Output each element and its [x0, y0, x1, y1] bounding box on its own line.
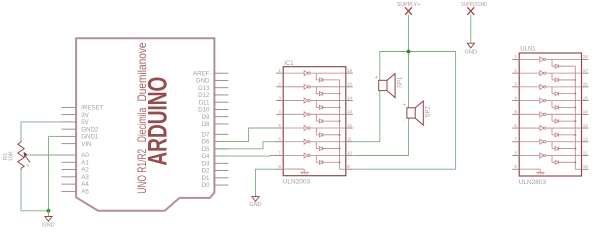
- svg-text:D13: D13: [198, 85, 210, 92]
- svg-text:D1: D1: [202, 175, 210, 182]
- svg-text:A1: A1: [81, 159, 89, 166]
- svg-text:14: 14: [347, 95, 353, 100]
- svg-text:D3: D3: [202, 160, 210, 167]
- svg-text:D6: D6: [202, 139, 210, 146]
- svg-text:D10: D10: [198, 107, 210, 114]
- svg-text:15: 15: [583, 95, 589, 100]
- svg-text:SUPPLY+: SUPPLY+: [397, 2, 421, 8]
- svg-text:18: 18: [583, 54, 589, 59]
- svg-text:14: 14: [583, 109, 589, 114]
- svg-text:GND: GND: [196, 78, 210, 85]
- svg-text:/RESET: /RESET: [81, 105, 104, 112]
- svg-text:D5: D5: [202, 146, 210, 153]
- svg-text:GND: GND: [465, 50, 477, 56]
- svg-text:13: 13: [583, 123, 589, 128]
- svg-text:A4: A4: [81, 181, 89, 188]
- svg-text:11: 11: [347, 137, 352, 142]
- svg-text:SP2: SP2: [426, 105, 432, 117]
- svg-text:15: 15: [347, 82, 353, 87]
- svg-text:10K: 10K: [9, 151, 15, 161]
- svg-text:ARDUINO: ARDUINO: [143, 77, 173, 166]
- svg-text:SUPPLYGND: SUPPLYGND: [461, 2, 487, 8]
- svg-text:D7: D7: [202, 131, 210, 138]
- svg-text:ULN1: ULN1: [520, 47, 536, 53]
- svg-text:5V: 5V: [81, 119, 89, 126]
- svg-text:D8: D8: [202, 121, 210, 128]
- svg-text:+: +: [403, 102, 406, 108]
- svg-text:17: 17: [583, 68, 589, 73]
- svg-text:+: +: [375, 75, 378, 81]
- svg-text:SP1: SP1: [398, 76, 404, 88]
- svg-text:12: 12: [347, 123, 353, 128]
- svg-text:16: 16: [583, 82, 589, 87]
- svg-text:10: 10: [583, 164, 589, 169]
- svg-text:D11: D11: [199, 99, 210, 106]
- svg-text:A5: A5: [81, 189, 89, 196]
- svg-text:D0: D0: [202, 182, 210, 189]
- svg-text:GND1: GND1: [81, 134, 99, 141]
- svg-text:GND2: GND2: [81, 126, 99, 133]
- svg-text:IC1: IC1: [284, 61, 294, 67]
- svg-text:A3: A3: [81, 174, 89, 181]
- svg-text:VIN: VIN: [81, 141, 91, 148]
- svg-text:D9: D9: [202, 114, 210, 121]
- svg-text:D4: D4: [202, 153, 210, 160]
- svg-text:D2: D2: [202, 168, 210, 175]
- svg-text:13: 13: [347, 109, 353, 114]
- svg-text:11: 11: [583, 150, 588, 155]
- svg-text:+: +: [27, 163, 30, 168]
- svg-text:12: 12: [583, 137, 589, 142]
- svg-text:GND: GND: [249, 202, 261, 208]
- svg-text:16: 16: [347, 68, 353, 73]
- svg-text:A2: A2: [81, 167, 89, 174]
- svg-text:ULN2003: ULN2003: [283, 179, 311, 186]
- svg-text:10: 10: [347, 150, 353, 155]
- svg-text:ULN2803: ULN2803: [519, 179, 547, 186]
- svg-text:3V: 3V: [81, 112, 89, 119]
- svg-text:AREF: AREF: [193, 70, 210, 77]
- svg-text:A0: A0: [81, 152, 89, 159]
- svg-text:D12: D12: [198, 92, 210, 99]
- svg-text:GND: GND: [42, 222, 54, 228]
